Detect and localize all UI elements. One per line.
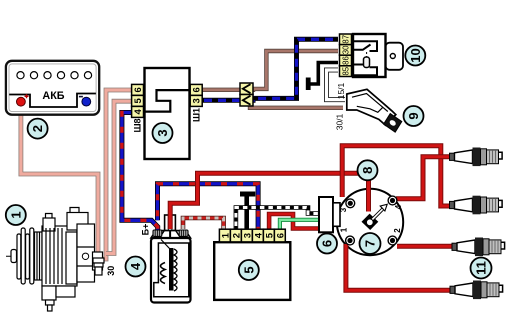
svg-text:5: 5 [133,98,144,104]
svg-text:3: 3 [242,233,253,238]
svg-text:1: 1 [220,232,231,238]
svg-text:11: 11 [474,261,489,275]
svg-text:6: 6 [275,233,286,238]
svg-text:5: 5 [241,266,256,273]
svg-text:1: 1 [8,211,23,218]
svg-text:4: 4 [133,109,144,115]
svg-text:15/1: 15/1 [336,82,346,99]
svg-text:2: 2 [231,233,242,238]
svg-text:85: 85 [341,66,350,75]
svg-text:Б+: Б+ [140,224,150,236]
svg-text:АКБ: АКБ [42,90,64,102]
svg-text:2: 2 [393,228,402,233]
svg-text:6: 6 [133,87,144,92]
svg-text:3: 3 [192,98,203,103]
svg-text:7: 7 [363,240,378,247]
svg-text:2: 2 [30,125,45,132]
svg-text:10: 10 [408,48,423,62]
svg-text:4: 4 [394,204,403,209]
svg-text:4: 4 [128,262,143,270]
svg-text:30/1: 30/1 [335,113,345,130]
svg-text:5: 5 [264,232,275,238]
svg-text:86: 86 [341,56,350,65]
svg-text:3: 3 [339,207,348,212]
svg-text:30: 30 [106,266,116,276]
svg-text:9: 9 [406,112,421,119]
svg-text:6: 6 [320,240,335,247]
svg-text:87: 87 [341,35,350,44]
svg-text:1: 1 [340,227,349,232]
svg-text:Ш8: Ш8 [133,118,143,132]
svg-text:8: 8 [360,167,375,174]
svg-text:30: 30 [341,45,350,54]
svg-text:6: 6 [192,87,203,92]
svg-text:3: 3 [155,129,170,136]
svg-text:Ш1: Ш1 [192,108,202,122]
svg-text:4: 4 [253,232,264,238]
